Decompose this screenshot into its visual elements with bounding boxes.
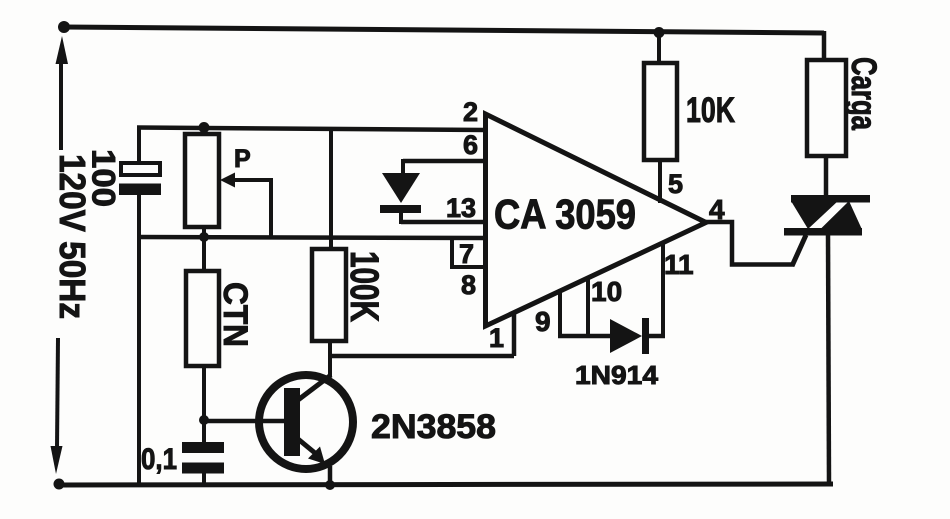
svg-text:1N914: 1N914 bbox=[575, 360, 659, 390]
svg-text:1: 1 bbox=[489, 323, 504, 353]
wire 10K top stub bbox=[657, 32, 661, 64]
svg-text:13: 13 bbox=[446, 193, 476, 223]
node top-left junction dot bbox=[58, 21, 70, 33]
node CTN base junction dot bbox=[199, 415, 209, 425]
svg-text:CTN: CTN bbox=[216, 282, 254, 347]
capacitor 0,1 bottom plate bbox=[182, 463, 224, 474]
wire emitter to bottom rail bbox=[328, 466, 333, 486]
transistor Q1 2N3858 circle bbox=[259, 375, 353, 469]
diode D1 triangle (pins 6-13) bbox=[382, 173, 420, 203]
svg-text:8: 8 bbox=[461, 270, 476, 300]
wire pin 10 vertical bbox=[586, 276, 590, 338]
wire bottom rail bbox=[58, 484, 833, 485]
node pot bottom junction dot bbox=[199, 232, 209, 242]
transistor base bar bbox=[284, 388, 300, 456]
svg-text:2: 2 bbox=[463, 97, 478, 127]
svg-text:11: 11 bbox=[664, 249, 694, 280]
wire diode D1 cathode stub bbox=[399, 212, 403, 224]
wire pin 2 line from left branch to CA3059 bbox=[137, 128, 485, 131]
wire triac MT1 to bottom rail bbox=[828, 235, 829, 484]
wire pin 11 vertical bbox=[661, 243, 665, 338]
wire source arrow upper shaft bbox=[59, 60, 63, 150]
wire source arrow lower shaft bbox=[57, 338, 58, 448]
wire pin 4 lead to gate bbox=[706, 222, 794, 265]
transistor emitter arrowhead bbox=[308, 447, 325, 465]
diode D2 1N914 cathode bar bbox=[642, 318, 649, 354]
wire Carga bottom to triac MT2 bbox=[824, 156, 829, 197]
svg-text:10: 10 bbox=[591, 276, 622, 307]
wire pin 9 vertical bbox=[558, 289, 562, 338]
svg-text:7: 7 bbox=[459, 239, 474, 269]
resistor Carga body bbox=[807, 60, 846, 156]
capacitor C 100 bottom plate bbox=[119, 184, 161, 196]
potentiometer P body bbox=[185, 134, 219, 227]
wire diode D2 cathode to pin 11 bbox=[649, 334, 665, 339]
op-amp U1 CA3059 triangle bbox=[486, 114, 707, 326]
wire CTN top stub bbox=[202, 238, 206, 271]
wire top rail corner down to Carga bbox=[822, 31, 827, 60]
transistor emitter diagonal bbox=[298, 439, 315, 453]
wire diode D1 anode stub bbox=[401, 159, 405, 173]
svg-text:10K: 10K bbox=[686, 91, 735, 130]
wire base lead bbox=[204, 419, 284, 424]
wire 100K bottom to collector bbox=[328, 341, 332, 377]
svg-text:0,1: 0,1 bbox=[141, 443, 177, 476]
pin 7-8 box bottom side bbox=[450, 265, 485, 269]
wire top supply rail bbox=[64, 27, 824, 33]
source arrow 120V bottom arrowhead bbox=[51, 446, 63, 474]
thermistor CTN body bbox=[186, 271, 219, 366]
wire pot wiper tail bbox=[231, 180, 271, 238]
node emitter rail junction dot bbox=[325, 480, 335, 490]
node junction dot above 10K bbox=[654, 27, 665, 38]
svg-text:2N3858: 2N3858 bbox=[371, 408, 496, 446]
diode D2 1N914 triangle bbox=[610, 319, 642, 353]
wire left branch vertical lower (cap to bottom rail) bbox=[137, 195, 141, 485]
svg-text:100K: 100K bbox=[342, 251, 386, 322]
pin 7-8 box left side bbox=[450, 238, 454, 267]
svg-text:CA 3059: CA 3059 bbox=[494, 191, 636, 238]
svg-text:Carga: Carga bbox=[844, 57, 883, 130]
triac TR1 upper-left triangle bbox=[791, 201, 838, 229]
wire pin 5 vertical (10K to triangle) bbox=[658, 160, 662, 203]
svg-text:P: P bbox=[234, 145, 251, 173]
svg-text:5: 5 bbox=[668, 169, 683, 199]
triac TR1 bottom bar (MT1) bbox=[784, 228, 862, 236]
wire 0,1 cap bottom stub bbox=[202, 473, 206, 485]
diode D1 cathode bar bbox=[380, 205, 421, 213]
wire gate diagonal to triac bbox=[792, 235, 806, 266]
triac TR1 top bar (MT2) bbox=[791, 195, 870, 203]
wire pin 1 vertical bbox=[512, 313, 517, 356]
wire pin 13 lead bbox=[401, 220, 485, 225]
transistor collector diagonal bbox=[298, 375, 331, 400]
triac TR1 lower-right triangle bbox=[820, 201, 862, 230]
source arrow 120V top arrowhead bbox=[56, 36, 69, 64]
resistor 100K body bbox=[312, 249, 346, 341]
svg-text:100: 100 bbox=[86, 149, 122, 207]
capacitor C 100 top plate (hollow) bbox=[121, 163, 160, 175]
wire left branch vertical upper (to capacitor 100) bbox=[137, 126, 141, 163]
pot wiper arrowhead bbox=[220, 173, 235, 188]
wire mid horizontal bus y236 bbox=[137, 237, 485, 238]
wire pot bottom stub bbox=[202, 227, 206, 238]
node bottom-left junction dot bbox=[54, 479, 65, 490]
resistor 10K body bbox=[644, 63, 677, 160]
svg-text:9: 9 bbox=[535, 306, 551, 337]
node pot top junction dot bbox=[199, 122, 210, 133]
svg-text:6: 6 bbox=[463, 130, 478, 160]
wire pin 1 line bbox=[330, 354, 514, 359]
capacitor 0,1 top plate bbox=[182, 442, 224, 453]
wire CTN bottom stub bbox=[202, 366, 206, 443]
wire pot top stub bbox=[202, 126, 206, 135]
wire pin 9/10 to diode anode bbox=[558, 334, 611, 339]
wire pin 6 lead bbox=[403, 159, 485, 164]
wire 100K top vertical from pin2 line bbox=[329, 129, 333, 249]
